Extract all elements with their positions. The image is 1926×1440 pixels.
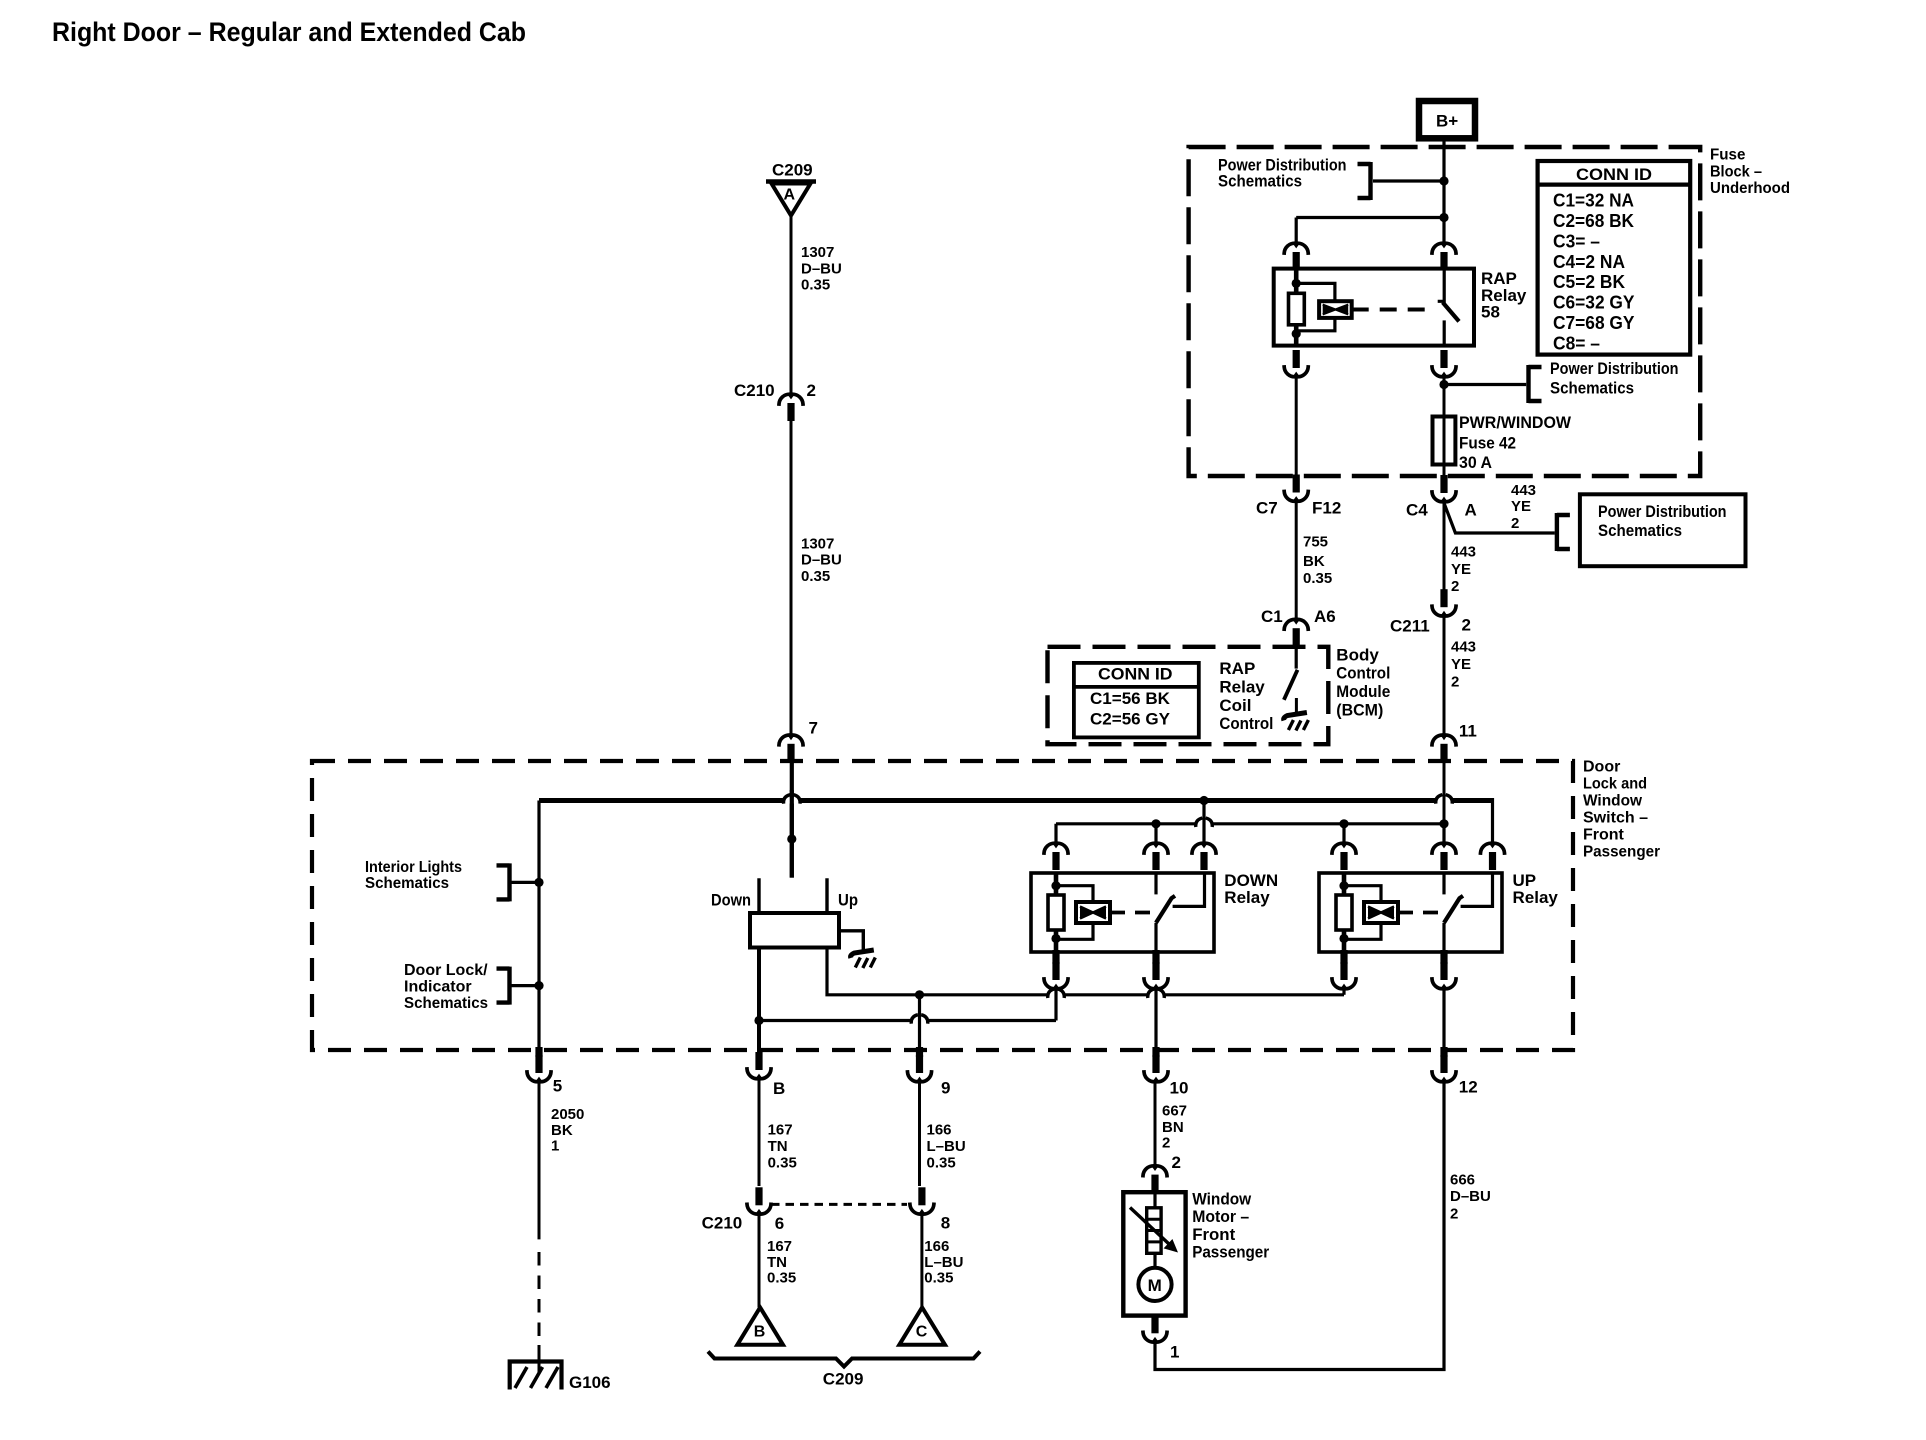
svg-text:166: 166 (927, 1122, 952, 1139)
svg-text:1: 1 (551, 1138, 559, 1155)
svg-text:166: 166 (924, 1238, 949, 1255)
svg-text:CONN ID: CONN ID (1098, 664, 1173, 683)
svg-text:Underhood: Underhood (1710, 180, 1790, 197)
svg-text:Schematics: Schematics (1218, 172, 1302, 191)
svg-text:58: 58 (1481, 302, 1500, 321)
svg-text:C7: C7 (1256, 499, 1278, 518)
svg-text:C211: C211 (1390, 617, 1430, 636)
svg-text:Front: Front (1583, 827, 1625, 844)
svg-text:D–BU: D–BU (801, 552, 842, 569)
svg-text:B+: B+ (1436, 112, 1458, 131)
svg-text:2050: 2050 (551, 1106, 584, 1123)
svg-text:11: 11 (1459, 721, 1477, 740)
svg-text:Up: Up (838, 890, 858, 909)
svg-text:Indicator: Indicator (404, 979, 472, 996)
svg-text:C210: C210 (702, 1214, 743, 1233)
svg-text:Schematics: Schematics (365, 875, 449, 892)
svg-text:2: 2 (1451, 578, 1459, 595)
svg-text:Relay: Relay (1224, 888, 1270, 907)
svg-text:Front: Front (1192, 1225, 1235, 1244)
svg-text:1: 1 (1170, 1343, 1179, 1362)
svg-text:A: A (1465, 501, 1477, 520)
svg-text:Power Distribution: Power Distribution (1598, 502, 1727, 521)
svg-text:Interior Lights: Interior Lights (365, 859, 462, 876)
svg-text:C2=68 BK: C2=68 BK (1553, 211, 1634, 231)
svg-text:YE: YE (1511, 498, 1531, 515)
svg-text:Block –: Block – (1710, 163, 1762, 180)
svg-text:Passenger: Passenger (1192, 1242, 1269, 1261)
svg-text:YE: YE (1451, 656, 1471, 673)
svg-text:C4=2 NA: C4=2 NA (1553, 252, 1625, 272)
svg-text:443: 443 (1451, 544, 1476, 561)
svg-text:1307: 1307 (801, 535, 834, 552)
svg-text:Right Door – Regular and Exten: Right Door – Regular and Extended Cab (52, 17, 526, 47)
svg-text:6: 6 (775, 1214, 784, 1233)
svg-text:Schematics: Schematics (404, 995, 488, 1012)
svg-text:Schematics: Schematics (1598, 521, 1682, 540)
svg-text:D–BU: D–BU (1450, 1188, 1491, 1205)
svg-text:C209: C209 (823, 1370, 864, 1389)
svg-text:(BCM): (BCM) (1336, 700, 1383, 719)
svg-text:Fuse: Fuse (1710, 147, 1745, 164)
svg-text:C1=56 BK: C1=56 BK (1090, 689, 1171, 708)
svg-text:167: 167 (767, 1238, 792, 1255)
svg-text:PWR/WINDOW: PWR/WINDOW (1459, 413, 1572, 432)
svg-text:8: 8 (941, 1214, 950, 1233)
svg-text:TN: TN (767, 1254, 787, 1271)
svg-text:BN: BN (1162, 1119, 1184, 1136)
svg-text:C210: C210 (734, 381, 775, 400)
svg-text:C1=32 NA: C1=32 NA (1553, 190, 1634, 210)
svg-text:755: 755 (1303, 534, 1328, 551)
svg-text:C5=2 BK: C5=2 BK (1553, 272, 1625, 292)
svg-text:Down: Down (711, 890, 751, 909)
svg-text:666: 666 (1450, 1172, 1475, 1189)
svg-text:1307: 1307 (801, 244, 834, 261)
svg-text:Control: Control (1219, 714, 1273, 733)
svg-text:C: C (916, 1324, 928, 1341)
svg-text:Lock and: Lock and (1583, 776, 1647, 793)
svg-text:30 A: 30 A (1459, 453, 1492, 472)
svg-text:L–BU: L–BU (924, 1254, 963, 1271)
svg-text:C8= –: C8= – (1553, 334, 1600, 354)
svg-text:BK: BK (1303, 553, 1325, 570)
svg-text:443: 443 (1451, 638, 1476, 655)
svg-text:A: A (784, 187, 796, 204)
svg-text:C1: C1 (1261, 607, 1283, 626)
svg-text:D–BU: D–BU (801, 260, 842, 277)
svg-text:CONN ID: CONN ID (1576, 165, 1652, 184)
svg-text:RAP: RAP (1219, 659, 1255, 678)
svg-text:2: 2 (1162, 1135, 1170, 1152)
svg-text:0.35: 0.35 (927, 1154, 956, 1171)
svg-text:2: 2 (807, 381, 816, 400)
svg-text:7: 7 (809, 719, 818, 738)
svg-text:Schematics: Schematics (1550, 379, 1634, 398)
svg-text:Coil: Coil (1219, 696, 1251, 715)
svg-text:Window: Window (1192, 1190, 1252, 1209)
svg-text:L–BU: L–BU (927, 1138, 966, 1155)
svg-text:Switch –: Switch – (1583, 810, 1648, 827)
svg-text:B: B (773, 1079, 785, 1098)
svg-text:0.35: 0.35 (801, 277, 830, 294)
svg-text:Power Distribution: Power Distribution (1550, 359, 1679, 378)
svg-text:2: 2 (1462, 616, 1471, 635)
svg-text:Passenger: Passenger (1583, 844, 1660, 861)
svg-text:C3= –: C3= – (1553, 231, 1600, 251)
svg-text:C4: C4 (1406, 501, 1428, 520)
svg-text:Relay: Relay (1219, 677, 1265, 696)
svg-text:0.35: 0.35 (1303, 570, 1332, 587)
svg-text:Body: Body (1336, 645, 1379, 664)
svg-text:BK: BK (551, 1122, 573, 1139)
svg-text:M: M (1148, 1276, 1162, 1295)
svg-text:YE: YE (1451, 561, 1471, 578)
svg-text:167: 167 (768, 1122, 793, 1139)
svg-text:C7=68 GY: C7=68 GY (1553, 313, 1635, 333)
svg-text:Door Lock/: Door Lock/ (404, 962, 488, 979)
svg-text:TN: TN (768, 1138, 788, 1155)
svg-text:0.35: 0.35 (768, 1154, 797, 1171)
svg-text:12: 12 (1459, 1077, 1478, 1096)
svg-text:0.35: 0.35 (924, 1270, 953, 1287)
svg-text:Motor –: Motor – (1192, 1207, 1249, 1226)
svg-text:9: 9 (941, 1079, 950, 1098)
svg-text:0.35: 0.35 (801, 568, 830, 585)
svg-text:B: B (754, 1324, 766, 1341)
svg-text:10: 10 (1170, 1079, 1189, 1098)
svg-text:0.35: 0.35 (767, 1270, 796, 1287)
svg-text:Door: Door (1583, 759, 1620, 776)
svg-text:Fuse 42: Fuse 42 (1459, 433, 1516, 452)
svg-text:C2=56 GY: C2=56 GY (1090, 710, 1171, 729)
svg-text:A6: A6 (1314, 607, 1336, 626)
svg-text:Relay: Relay (1513, 888, 1559, 907)
svg-text:C209: C209 (772, 161, 813, 180)
svg-text:443: 443 (1511, 482, 1536, 499)
svg-text:5: 5 (553, 1077, 562, 1096)
svg-text:F12: F12 (1312, 499, 1341, 518)
svg-text:C6=32 GY: C6=32 GY (1553, 293, 1635, 313)
svg-text:Control: Control (1336, 664, 1390, 683)
svg-text:2: 2 (1172, 1153, 1181, 1172)
svg-text:Module: Module (1336, 682, 1390, 701)
svg-text:Window: Window (1583, 793, 1643, 810)
svg-text:2: 2 (1450, 1205, 1458, 1222)
svg-text:2: 2 (1511, 515, 1519, 532)
svg-text:2: 2 (1451, 673, 1459, 690)
svg-text:667: 667 (1162, 1102, 1187, 1119)
svg-text:G106: G106 (569, 1373, 611, 1392)
